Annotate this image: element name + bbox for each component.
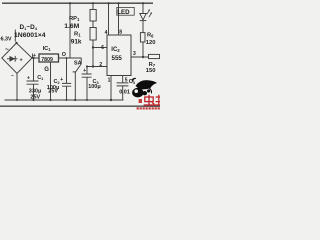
svg-text:1: 1 (108, 77, 111, 83)
svg-text:+: + (27, 75, 30, 81)
svg-text:5: 5 (125, 78, 128, 84)
svg-text:91k: 91k (71, 38, 82, 45)
svg-text:~: ~ (5, 47, 9, 54)
svg-text:8: 8 (119, 30, 122, 36)
svg-text:−: − (11, 73, 14, 79)
svg-text:LED: LED (117, 9, 130, 16)
svg-text:O: O (62, 52, 66, 58)
svg-text:25V: 25V (30, 94, 40, 100)
svg-text:25V: 25V (48, 89, 58, 95)
svg-text:+: + (60, 77, 63, 83)
svg-text:G: G (44, 67, 49, 73)
svg-text:4: 4 (105, 30, 108, 36)
svg-text:~6.3V: ~6.3V (0, 37, 12, 43)
svg-text:6: 6 (101, 45, 104, 51)
svg-text:+: + (33, 53, 36, 59)
svg-text:IC2: IC2 (111, 47, 120, 53)
svg-text:120: 120 (146, 40, 156, 46)
svg-text:+: + (20, 57, 23, 63)
svg-text:R6: R6 (147, 32, 154, 38)
svg-text:+: + (83, 68, 86, 74)
svg-text:150: 150 (146, 68, 156, 74)
svg-text:555: 555 (112, 55, 123, 62)
svg-text:0.01: 0.01 (119, 90, 130, 96)
svg-text:1.6M: 1.6M (64, 23, 79, 30)
svg-text:R1: R1 (74, 32, 81, 38)
svg-text:100μ: 100μ (88, 84, 101, 90)
svg-text:2: 2 (99, 62, 102, 68)
svg-text:IC1: IC1 (43, 46, 52, 52)
svg-text:7809: 7809 (41, 57, 53, 63)
svg-text:RP1: RP1 (69, 16, 80, 22)
svg-text:SA: SA (74, 60, 82, 66)
svg-text:3: 3 (133, 51, 136, 57)
svg-text:1N6001×4: 1N6001×4 (14, 32, 46, 39)
svg-text:D1~D4: D1~D4 (20, 24, 38, 31)
